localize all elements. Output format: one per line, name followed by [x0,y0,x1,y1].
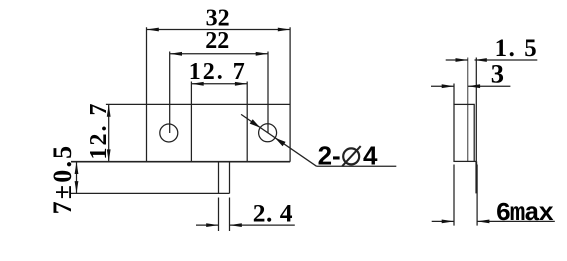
svg-text:3: 3 [491,59,504,89]
svg-text:4: 4 [363,141,378,171]
svg-text:2. 4: 2. 4 [253,198,293,227]
svg-text:22: 22 [205,28,229,54]
svg-text:7±0.5: 7±0.5 [48,144,77,215]
svg-text:12. 7: 12. 7 [86,102,112,160]
svg-text:6max: 6max [496,198,554,228]
svg-text:2-: 2- [318,141,341,171]
svg-text:12. 7: 12. 7 [189,59,247,85]
